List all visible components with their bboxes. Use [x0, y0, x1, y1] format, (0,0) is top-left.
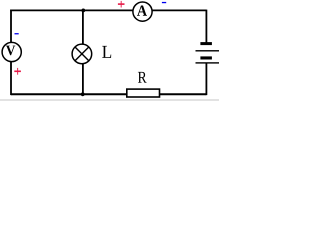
ammeter A: circle with letter A	[133, 2, 152, 21]
wire: left side (through voltmeter branch)	[10, 10, 12, 96]
node: junction dot bottom (lamp branch to bottom wire)	[81, 92, 85, 96]
decorative baseline (light gray rule near bottom)	[0, 99, 219, 100]
label R	[138, 72, 147, 83]
battery cell 1: short thick negative plate	[200, 42, 212, 45]
node: junction dot top (lamp branch to top wire)	[81, 9, 85, 13]
label: plus polarity of ammeter (red)	[118, 1, 125, 8]
wire: lamp branch vertical	[82, 10, 84, 94]
lamp L: circle with X cross	[72, 44, 92, 64]
battery cell 1: long thin positive plate	[196, 50, 220, 51]
wire: right side upper segment (top-right corner down to battery)	[205, 10, 207, 44]
label: plus polarity of voltmeter (red)	[14, 68, 21, 75]
voltmeter U=V: circle with letter V	[2, 42, 21, 61]
label L	[102, 46, 111, 58]
resistor R: rectangle box on bottom wire	[127, 89, 160, 97]
wire: right side lower segment (battery down to bottom-right corner)	[205, 63, 207, 95]
label: minus polarity of voltmeter (blue)	[15, 33, 19, 34]
wire: bottom side from bottom-left corner to bottom-right corner	[11, 93, 206, 95]
battery cell 2: long thin positive plate	[196, 62, 220, 63]
label: minus polarity of ammeter (blue)	[162, 2, 166, 3]
battery cell 2: short thick negative plate	[200, 56, 212, 59]
wire: top side from top-left corner to top-right corner	[10, 9, 206, 11]
